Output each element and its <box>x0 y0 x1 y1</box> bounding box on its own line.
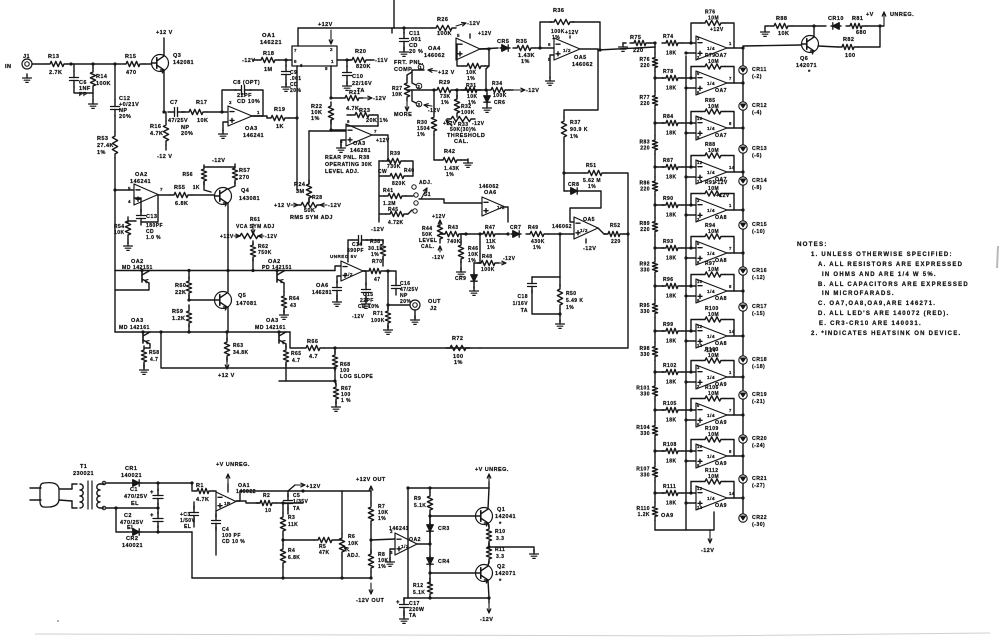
capacitor C13 feedback <box>141 195 158 222</box>
svg-text:CR14: CR14 <box>752 178 767 184</box>
bottom raw rail <box>192 577 371 579</box>
ground below R54 <box>127 239 129 243</box>
wire R65 bottom to R67 <box>279 380 335 382</box>
svg-text:Q2: Q2 <box>497 564 505 570</box>
LED CR19 <box>739 391 747 399</box>
svg-text:7: 7 <box>160 187 163 192</box>
svg-text:+12V: +12V <box>220 234 234 240</box>
ground below J2 <box>414 310 416 318</box>
svg-text:R6: R6 <box>348 534 355 540</box>
svg-text:+12 V: +12 V <box>156 30 173 36</box>
svg-text:R93: R93 <box>663 239 674 245</box>
svg-text:5: 5 <box>294 59 297 64</box>
svg-text:-12V: -12V <box>467 21 480 27</box>
+12V right of R21 <box>363 97 372 99</box>
level network left rail <box>378 161 380 219</box>
svg-text:R66: R66 <box>307 339 318 345</box>
svg-text:CR21: CR21 <box>752 476 767 482</box>
svg-text:10: 10 <box>697 444 703 449</box>
svg-text:CR17: CR17 <box>752 304 767 310</box>
svg-text:R108: R108 <box>663 442 677 448</box>
svg-text:1/4: 1/4 <box>707 251 715 257</box>
svg-text:270: 270 <box>239 175 250 181</box>
svg-text:4: 4 <box>128 199 131 204</box>
svg-text:142081: 142081 <box>173 60 194 66</box>
+V UNREG arrow above regulator <box>227 474 229 484</box>
svg-text:2: 2 <box>229 100 232 105</box>
svg-text:90.9 K: 90.9 K <box>570 127 588 133</box>
svg-text:OA4: OA4 <box>428 46 441 52</box>
secondary winding <box>97 484 100 508</box>
op-amp OA8 stage 5 <box>696 198 727 222</box>
svg-text:(-27): (-27) <box>752 483 765 489</box>
LED CR21 <box>739 475 747 483</box>
svg-text:4.7: 4.7 <box>150 357 158 363</box>
svg-text:1%: 1% <box>97 150 106 156</box>
svg-text:1%: 1% <box>378 564 386 570</box>
svg-text:5.49 K: 5.49 K <box>566 298 583 304</box>
svg-text:IN MICROFARADS.: IN MICROFARADS. <box>822 291 895 297</box>
svg-text:6.8K: 6.8K <box>175 201 188 207</box>
svg-text:6: 6 <box>697 422 700 427</box>
svg-text:OA3: OA3 <box>266 318 279 324</box>
capacitor C7 <box>168 111 175 113</box>
svg-text:18K: 18K <box>666 339 677 345</box>
svg-text:-12V: -12V <box>352 314 365 320</box>
switch S1 contacts <box>412 185 416 189</box>
svg-text:47: 47 <box>374 277 380 283</box>
svg-text:1/2: 1/2 <box>580 228 588 234</box>
svg-text:R4: R4 <box>288 548 295 554</box>
svg-text:R105: R105 <box>663 401 677 407</box>
svg-text:R17: R17 <box>196 100 207 106</box>
svg-text:1.2K: 1.2K <box>638 512 650 518</box>
svg-text:-12V: -12V <box>480 617 493 623</box>
svg-text:(-6): (-6) <box>752 153 762 159</box>
svg-text:1M: 1M <box>264 67 273 73</box>
svg-text:R90: R90 <box>663 196 674 202</box>
op-amp OA8 stage 6 <box>696 241 727 265</box>
svg-text:142071: 142071 <box>495 571 516 577</box>
svg-text:34.8K: 34.8K <box>233 350 249 356</box>
+12V feed wire right <box>303 490 371 492</box>
wire OA1 pin6 down to R19 node <box>296 66 298 118</box>
svg-text:(-2): (-2) <box>752 74 762 80</box>
svg-text:(-21): (-21) <box>752 399 765 405</box>
svg-text:OA3: OA3 <box>245 126 258 132</box>
svg-text:CR2: CR2 <box>126 536 138 542</box>
svg-text:1.2K: 1.2K <box>172 316 185 322</box>
ground below R14 <box>92 90 94 100</box>
svg-text:3: 3 <box>697 365 700 370</box>
svg-text:1/4: 1/4 <box>707 334 715 340</box>
svg-text:C10: C10 <box>352 74 363 80</box>
Q5 base wire <box>189 295 214 300</box>
svg-text:13: 13 <box>697 343 703 348</box>
svg-text:1: 1 <box>729 41 732 46</box>
svg-text:146062: 146062 <box>572 62 593 68</box>
+12V arrow at C5 <box>295 484 305 486</box>
output LED bus <box>742 48 744 522</box>
LED CR20 <box>739 435 747 443</box>
svg-text:+12V OUT: +12V OUT <box>356 477 386 483</box>
svg-text:8: 8 <box>325 66 328 71</box>
svg-text:(-4): (-4) <box>752 110 762 116</box>
svg-text:22K: 22K <box>175 290 186 296</box>
transistor Q6 <box>802 36 819 53</box>
capacitor C18 branch <box>559 234 561 277</box>
svg-text:R84: R84 <box>663 114 674 120</box>
svg-text:18K: 18K <box>666 501 677 507</box>
+V UNREG top right <box>883 12 885 26</box>
wire OA3b output down to level network <box>372 135 388 161</box>
ground below R58 <box>143 364 145 368</box>
svg-text:18K: 18K <box>666 131 677 137</box>
svg-text:CAL.: CAL. <box>454 139 469 145</box>
resistor R65 4.7 <box>285 344 287 348</box>
capacitor C12 <box>114 100 116 107</box>
svg-text:10: 10 <box>697 279 703 284</box>
svg-text:R59: R59 <box>172 309 183 315</box>
ground left of R88 <box>764 28 766 32</box>
op-amp OA7 stage 4 <box>696 160 727 184</box>
wire OA4 output node down to comparator <box>485 69 487 90</box>
svg-text:2: 2 <box>697 217 700 222</box>
svg-text:4.7: 4.7 <box>309 354 318 360</box>
svg-text:140021: 140021 <box>122 543 143 549</box>
svg-text:146221: 146221 <box>260 40 282 46</box>
svg-text:9: 9 <box>697 298 700 303</box>
svg-text:1%: 1% <box>417 132 425 138</box>
-12V right of R20 <box>370 59 374 61</box>
svg-text:C1: C1 <box>130 487 138 493</box>
svg-text:CD 10 %: CD 10 % <box>222 539 245 545</box>
svg-text:18K: 18K <box>666 86 677 92</box>
svg-text:6: 6 <box>300 63 303 68</box>
bottom rail of buffer <box>408 597 489 599</box>
svg-text:2: 2 <box>417 84 420 89</box>
Q2 collector to bottom rail <box>488 580 489 598</box>
LED CR18 <box>739 356 747 364</box>
svg-text:50K: 50K <box>304 208 315 214</box>
svg-text:680: 680 <box>856 30 867 36</box>
svg-text:1/4: 1/4 <box>707 496 715 502</box>
svg-text:1%: 1% <box>446 172 454 178</box>
svg-text:R78: R78 <box>663 69 674 75</box>
svg-text:B. ALL CAPACITORS ARE EXPRESS: B. ALL CAPACITORS ARE EXPRESSED <box>818 282 969 288</box>
pot R28 RMS SYM ADJ <box>308 198 310 203</box>
svg-text:+12V: +12V <box>306 484 321 490</box>
svg-text:147081: 147081 <box>236 301 257 307</box>
svg-text:Q6: Q6 <box>800 56 808 62</box>
LED CR17 <box>739 303 747 311</box>
svg-text:OA1: OA1 <box>262 33 276 39</box>
svg-text:-12 V: -12 V <box>157 154 172 160</box>
svg-text:12: 12 <box>697 160 703 165</box>
svg-text:143081: 143081 <box>239 196 260 202</box>
svg-text:47/25V: 47/25V <box>168 118 188 124</box>
svg-text:C8 (OPT): C8 (OPT) <box>233 80 260 86</box>
svg-text:R42: R42 <box>444 149 455 155</box>
svg-text:CR10: CR10 <box>828 16 844 22</box>
svg-text:220: 220 <box>640 146 650 152</box>
right rail of raw supply <box>191 483 193 491</box>
svg-text:R102: R102 <box>663 363 677 369</box>
svg-text:R36: R36 <box>553 8 564 14</box>
MORE arrow below R27 <box>406 101 408 111</box>
resistor R58 4.7 <box>144 344 150 348</box>
svg-text:TA: TA <box>293 506 300 512</box>
op-amp OA9 stage 12 <box>696 486 727 510</box>
svg-text:(-10): (-10) <box>752 229 765 235</box>
svg-text:R12: R12 <box>413 583 424 589</box>
diode CR6 to ground <box>486 94 488 96</box>
op-amp OA9 stage 9 <box>696 365 727 389</box>
svg-text:5: 5 <box>697 241 700 246</box>
svg-text:R55: R55 <box>174 185 185 191</box>
OA2 + input to ground <box>390 549 395 560</box>
svg-text:220: 220 <box>611 239 621 245</box>
ground below CR6 <box>486 104 488 108</box>
svg-text:R50: R50 <box>566 291 577 297</box>
svg-text:1%: 1% <box>378 516 386 522</box>
svg-text:+V UNREG.: +V UNREG. <box>475 467 509 473</box>
svg-text:146022: 146022 <box>236 489 256 495</box>
svg-text:10K: 10K <box>392 92 403 98</box>
svg-text:C. OA7,OA8,OA9,ARE 146271.: C. OA7,OA8,OA9,ARE 146271. <box>818 301 936 307</box>
svg-text:R9: R9 <box>414 496 421 502</box>
svg-text:R26: R26 <box>437 17 448 23</box>
svg-text:R63: R63 <box>233 343 244 349</box>
svg-text:1/4: 1/4 <box>707 375 715 381</box>
Q2 emitter to R11 <box>488 561 489 566</box>
svg-text:-12V: -12V <box>503 256 516 262</box>
svg-text:100K: 100K <box>461 110 475 116</box>
ground below R67 <box>335 403 337 407</box>
svg-text:D. ALL LED'S ARE 140072 (RED): D. ALL LED'S ARE 140072 (RED). <box>818 311 949 317</box>
svg-text:EL: EL <box>184 524 191 530</box>
svg-text:VCA SYM ADJ: VCA SYM ADJ <box>236 224 275 230</box>
svg-text:330: 330 <box>640 268 650 274</box>
svg-text:R72: R72 <box>452 336 463 342</box>
svg-text:REAR PNL. R38: REAR PNL. R38 <box>325 155 370 161</box>
transistor Q3 <box>152 55 169 72</box>
svg-text:470/25V: 470/25V <box>124 494 148 500</box>
svg-text:100K: 100K <box>437 31 452 37</box>
svg-text:146062: 146062 <box>552 224 572 230</box>
svg-text:146281: 146281 <box>312 290 332 296</box>
svg-text:-12V: -12V <box>526 88 539 94</box>
svg-text:1: 1 <box>331 59 334 64</box>
svg-text:R111: R111 <box>663 484 676 490</box>
svg-text:7: 7 <box>294 48 297 53</box>
ground below R64 <box>283 310 285 313</box>
ground below C11 <box>403 48 405 52</box>
-12V below R16 <box>165 145 167 150</box>
svg-text:1%: 1% <box>566 305 574 311</box>
svg-text:RMS SYM ADJ: RMS SYM ADJ <box>290 215 333 221</box>
svg-text:R24: R24 <box>294 182 306 188</box>
svg-text:18K: 18K <box>666 380 677 386</box>
svg-text:1/2: 1/2 <box>345 272 353 278</box>
svg-text:6: 6 <box>347 119 350 124</box>
transistor Q2 <box>476 565 493 582</box>
svg-text:13: 13 <box>697 179 703 184</box>
svg-text:R18: R18 <box>263 51 274 57</box>
wire OA1 pin8 down <box>330 66 332 98</box>
svg-text:CR5: CR5 <box>497 39 509 45</box>
svg-text:-12V: -12V <box>583 246 596 252</box>
svg-text:820K: 820K <box>356 64 371 70</box>
svg-text:CR1: CR1 <box>125 466 137 472</box>
svg-text:R60: R60 <box>175 283 186 289</box>
svg-text:OA7: OA7 <box>715 88 727 94</box>
svg-text:7: 7 <box>729 246 732 251</box>
svg-text:OA5: OA5 <box>583 217 595 223</box>
svg-text:10: 10 <box>265 508 271 514</box>
svg-text:1/4: 1/4 <box>707 126 715 132</box>
svg-text:UNREG.: UNREG. <box>890 12 914 18</box>
svg-text:R52: R52 <box>610 223 621 229</box>
LED CR15 <box>739 221 747 229</box>
op-amp OA9 stage 10 <box>696 403 727 427</box>
svg-text:+12V: +12V <box>318 22 333 28</box>
svg-text:OPERATING 30K: OPERATING 30K <box>325 162 372 168</box>
svg-text:CR13: CR13 <box>752 146 767 152</box>
svg-text:CR8: CR8 <box>568 182 579 188</box>
svg-text:-12V: -12V <box>265 234 278 240</box>
capacitor C9 <box>285 65 287 72</box>
svg-text:-12V: -12V <box>701 548 714 554</box>
svg-text:OA8: OA8 <box>715 258 727 264</box>
svg-text:142041: 142041 <box>495 514 516 520</box>
LED CR11 <box>739 66 747 74</box>
svg-text:18K: 18K <box>666 175 677 181</box>
op-amp OA8 stage 7 <box>696 279 727 303</box>
svg-text:CD 10%: CD 10% <box>237 99 260 105</box>
LED CR16 <box>739 267 747 275</box>
OA5 output rail to ladder <box>580 47 655 50</box>
Q2 base wire <box>430 572 475 574</box>
svg-text:10K: 10K <box>348 541 359 547</box>
op-amp OA7 stage 2 <box>696 71 727 95</box>
wire S1 to OA6 <box>419 199 482 203</box>
ground at OA3b + input <box>341 140 346 146</box>
output tap to ground <box>489 547 534 552</box>
svg-text:R99: R99 <box>663 322 674 328</box>
svg-text:R45: R45 <box>388 207 399 213</box>
capacitor C6 <box>73 71 75 78</box>
svg-text:5: 5 <box>457 33 460 38</box>
svg-text:NOTES:: NOTES: <box>797 241 828 248</box>
top +12V rail over OA1 <box>298 28 392 46</box>
svg-text:3: 3 <box>697 36 700 41</box>
svg-text:R75: R75 <box>630 35 641 41</box>
svg-text:27.4K: 27.4K <box>97 143 114 149</box>
svg-text:9: 9 <box>697 463 700 468</box>
svg-text:3.3: 3.3 <box>496 536 504 542</box>
ground below C10 <box>346 82 348 86</box>
svg-text:1/4: 1/4 <box>707 454 715 460</box>
svg-text:100K: 100K <box>481 267 495 273</box>
top rail +V UNREG of buffer <box>408 487 489 489</box>
svg-text:ADJ.: ADJ. <box>419 180 432 186</box>
-12V at contact 3 <box>424 105 432 106</box>
svg-text:1/35V: 1/35V <box>293 499 309 505</box>
svg-text:E. CR3-CR10 ARE 140031.: E. CR3-CR10 ARE 140031. <box>819 321 922 327</box>
regulator output line to +12V <box>240 490 303 492</box>
LED CR12 <box>739 102 747 110</box>
svg-text:R28: R28 <box>312 195 323 201</box>
svg-text:R49: R49 <box>528 225 539 231</box>
svg-text:6: 6 <box>697 90 700 95</box>
svg-text:1.0 %: 1.0 % <box>146 235 161 241</box>
svg-text:220: 220 <box>640 227 650 233</box>
svg-text:R82: R82 <box>843 37 854 43</box>
svg-text:R48: R48 <box>482 254 493 260</box>
svg-text:330: 330 <box>640 473 650 479</box>
svg-text:R41: R41 <box>383 188 394 194</box>
svg-text:Q5: Q5 <box>238 293 246 299</box>
left vertical x=408 <box>407 488 409 598</box>
svg-text:1/4: 1/4 <box>707 289 715 295</box>
svg-text:R11: R11 <box>495 547 505 553</box>
svg-text:-12V: -12V <box>328 203 341 209</box>
svg-text:18K: 18K <box>666 294 677 300</box>
wire stage12 to -12V arrow <box>710 512 714 530</box>
svg-text:R13: R13 <box>48 54 59 60</box>
svg-text:R20: R20 <box>355 49 366 55</box>
transistor Q4 <box>215 188 232 205</box>
ground below R50 <box>559 320 561 324</box>
svg-text:CR19: CR19 <box>752 392 767 398</box>
svg-text:4.7: 4.7 <box>292 358 300 364</box>
svg-text:100K: 100K <box>493 93 507 99</box>
svg-text:1K: 1K <box>193 185 200 191</box>
svg-text:R70: R70 <box>372 259 383 265</box>
svg-text:2: 2 <box>330 47 333 52</box>
Q5 emitter down to R63 <box>227 307 229 332</box>
svg-text:-12V: -12V <box>371 227 384 233</box>
svg-text:2.7K: 2.7K <box>49 70 62 76</box>
svg-text:R19: R19 <box>274 107 285 113</box>
svg-text:1%: 1% <box>311 116 320 122</box>
svg-text:10K: 10K <box>197 118 208 124</box>
svg-text:+12V: +12V <box>478 31 492 37</box>
svg-text:12: 12 <box>697 486 703 491</box>
ground right of R42 <box>467 159 469 163</box>
svg-text:CR16: CR16 <box>752 268 767 274</box>
svg-text:R1: R1 <box>196 483 204 489</box>
svg-text:LEVEL ADJ.: LEVEL ADJ. <box>325 169 359 175</box>
svg-text:R74: R74 <box>663 34 674 40</box>
svg-text:47K: 47K <box>319 550 330 556</box>
svg-text:C7: C7 <box>170 100 178 106</box>
svg-text:1: 1 <box>729 370 732 375</box>
capacitor C15 <box>336 281 338 288</box>
svg-text:7: 7 <box>374 129 377 134</box>
svg-text:CR7: CR7 <box>510 225 521 231</box>
switch arm and ADJ label <box>421 188 427 199</box>
svg-text:2: 2 <box>390 529 393 534</box>
svg-text:1/2: 1/2 <box>563 48 571 54</box>
svg-text:MD 142161: MD 142161 <box>255 325 286 331</box>
svg-text:1%: 1% <box>588 184 596 190</box>
svg-text:1%: 1% <box>441 100 449 106</box>
svg-text:18K: 18K <box>666 51 677 57</box>
OA6 output down to detector line <box>504 207 508 222</box>
svg-text:R43: R43 <box>448 225 459 231</box>
